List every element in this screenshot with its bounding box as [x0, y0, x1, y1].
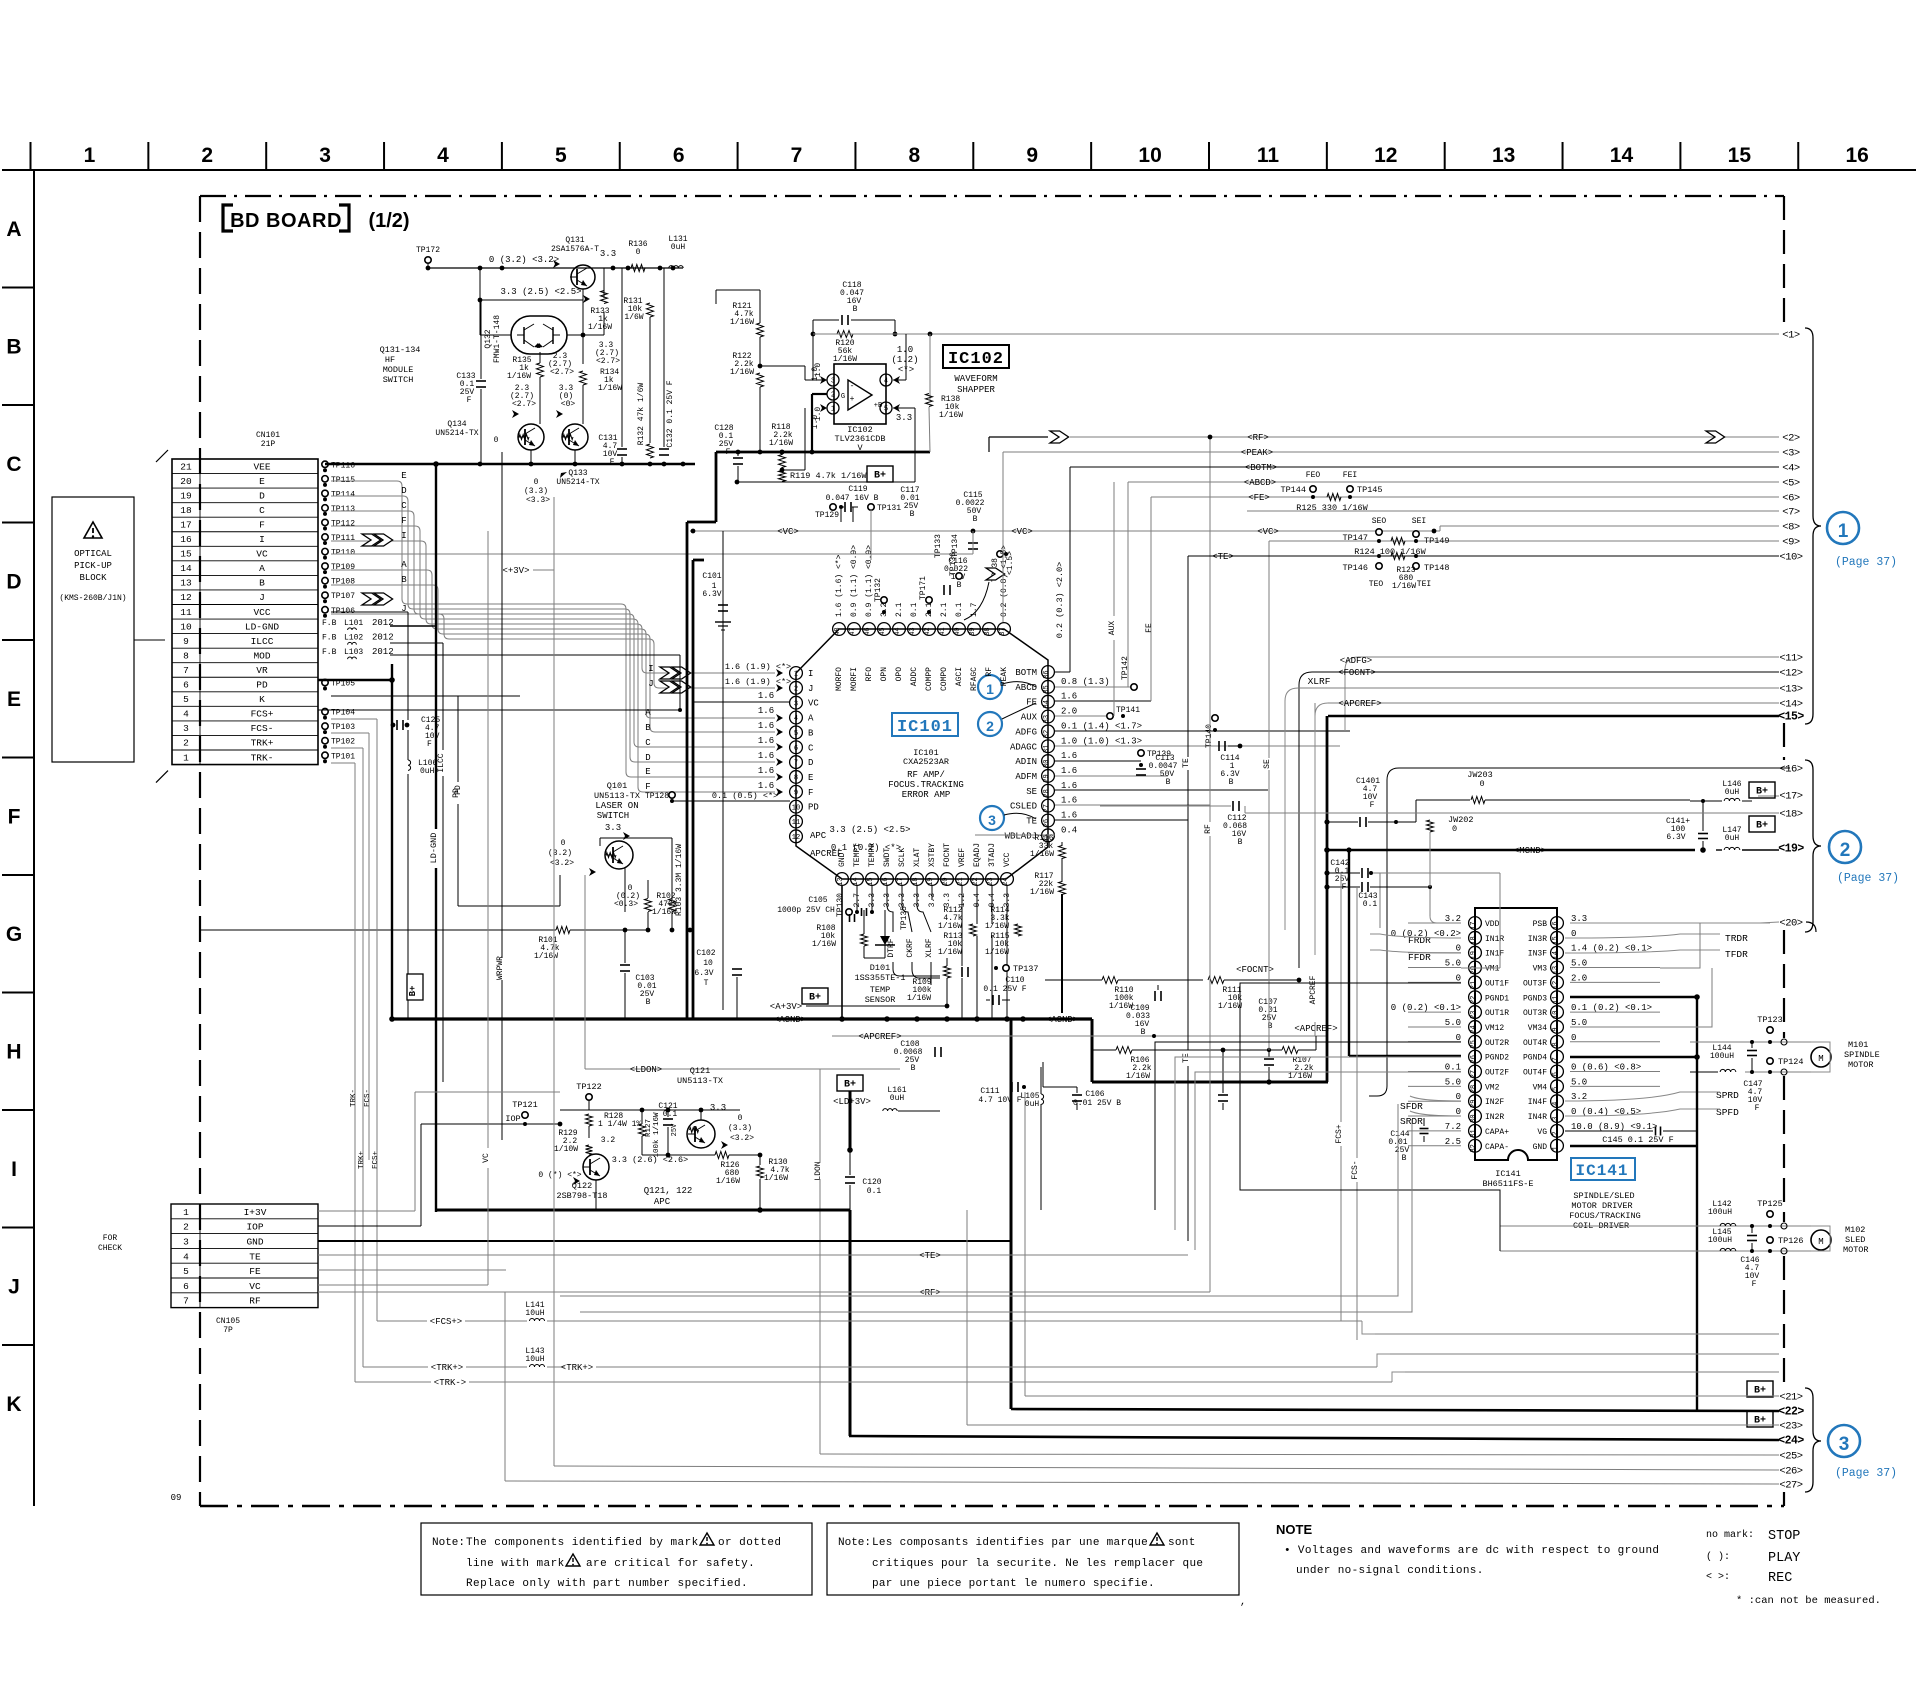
capacitor C146 4.7 10V F — [1740, 1224, 1759, 1289]
svg-text:MORFI: MORFI — [850, 667, 859, 691]
svg-text:<3.3>: <3.3> — [526, 496, 550, 505]
svg-text:B: B — [1238, 838, 1243, 847]
svg-text:TEMPI: TEMPI — [853, 843, 862, 867]
svg-text:4: 4 — [437, 144, 449, 167]
svg-text:1: 1 — [84, 144, 96, 167]
test point TP132 TP171 on top pins — [874, 576, 932, 614]
svg-text:OUT4R: OUT4R — [1523, 1039, 1547, 1048]
svg-text:15: 15 — [180, 549, 192, 560]
svg-text:10: 10 — [792, 804, 800, 812]
svg-text:B+: B+ — [844, 1080, 856, 1091]
svg-text:F: F — [808, 788, 813, 798]
wire net ABCD rail to 5 — [1128, 478, 1779, 687]
IC102 pin values — [814, 345, 919, 421]
border ruler top ticks and numbers — [31, 142, 1869, 170]
svg-text:23: 23 — [1470, 1010, 1478, 1018]
svg-text:TP171: TP171 — [919, 576, 928, 600]
svg-text:HF: HF — [385, 355, 395, 365]
svg-text:33: 33 — [1043, 715, 1051, 723]
svg-text:Les composants identifies par: Les composants identifies par une marque — [872, 1537, 1148, 1549]
wire rect loop OUT paths left of IC141 — [560, 923, 1712, 1312]
svg-text:3.3: 3.3 — [710, 1103, 726, 1113]
svg-text:1.6: 1.6 — [758, 781, 774, 791]
svg-text:<9>: <9> — [1782, 537, 1800, 549]
inductor L146 0uH — [1690, 780, 1779, 801]
blue circled 1 page ref — [1827, 512, 1897, 569]
resistor R120 56k 1/16W feedback — [811, 320, 898, 380]
svg-text:VR: VR — [256, 665, 268, 676]
svg-text:B: B — [645, 723, 651, 733]
svg-text:17: 17 — [1470, 921, 1478, 929]
svg-text:37: 37 — [999, 627, 1007, 635]
svg-text:IC102: IC102 — [948, 350, 1004, 369]
double arrow marks on I J wires — [660, 667, 691, 693]
svg-text:E: E — [645, 767, 650, 777]
vertical nets TRK FCS from CN101 — [350, 719, 380, 1382]
svg-text:B: B — [646, 998, 651, 1007]
svg-text:B: B — [808, 728, 814, 738]
svg-text:TP148: TP148 — [1424, 563, 1450, 573]
thick B+ horizontal y1210 — [435, 1210, 850, 1436]
B+ box before 17 — [1749, 782, 1775, 798]
svg-text:40: 40 — [954, 627, 962, 635]
svg-text:(Page 37): (Page 37) — [1835, 556, 1897, 569]
svg-text:DTRF: DTRF — [887, 938, 896, 957]
svg-text:-: - — [850, 382, 855, 391]
wire IN3R IN3F to TRDR TFDR — [1565, 934, 1720, 953]
svg-text:Q131: Q131 — [565, 236, 584, 245]
svg-text:CN105: CN105 — [216, 1317, 240, 1326]
svg-text:1/16W: 1/16W — [1392, 582, 1416, 591]
thick left bus vertical x1327 — [1324, 716, 1330, 1082]
svg-text:<17>: <17> — [1779, 791, 1802, 803]
resistor R103 3.3M 1/16W — [669, 844, 685, 933]
svg-text:REC: REC — [1768, 1571, 1792, 1586]
arrow mark above pin 38 — [964, 568, 1005, 620]
Q101 collector wires — [600, 838, 672, 912]
svg-text:,: , — [1240, 1597, 1246, 1608]
svg-text:IC141: IC141 — [1575, 1162, 1628, 1180]
svg-text:1/16W: 1/16W — [939, 411, 963, 420]
wire net 1 rail — [1210, 333, 1779, 335]
svg-text:2: 2 — [183, 738, 189, 749]
net A+3V arrow — [770, 1002, 950, 1012]
svg-text:1SS355TE-1: 1SS355TE-1 — [854, 973, 905, 983]
svg-text:7P: 7P — [223, 1326, 233, 1335]
optical pick-up block — [52, 497, 165, 762]
svg-text:B: B — [957, 581, 962, 590]
svg-text:sont: sont — [1168, 1537, 1196, 1549]
svg-text:J: J — [259, 592, 265, 603]
resistor R118 2.2k 1/16W — [769, 423, 793, 470]
svg-text:OUT1R: OUT1R — [1485, 1009, 1509, 1018]
svg-text:16: 16 — [1552, 921, 1560, 929]
svg-text:35: 35 — [1043, 685, 1051, 693]
svg-text:2.1: 2.1 — [925, 602, 934, 617]
inductor L145 100uH — [1708, 1228, 1736, 1251]
svg-text:0: 0 — [738, 1114, 743, 1123]
svg-text:VC: VC — [482, 1153, 491, 1163]
schematic frame dashed border — [200, 196, 1784, 1506]
label IC102 WAVEFORM SHAPPER — [943, 345, 1009, 395]
inductor L142 100uH — [1708, 1200, 1736, 1226]
svg-text:XLAT: XLAT — [913, 848, 922, 867]
svg-text:22: 22 — [1470, 996, 1478, 1004]
transistor Q134 UN5214-TX — [435, 384, 544, 450]
svg-text:0.1: 0.1 — [910, 602, 919, 617]
svg-text:I: I — [648, 664, 653, 674]
connector CN105 FOR CHECK — [98, 1204, 318, 1335]
svg-text:1/16W: 1/16W — [730, 318, 754, 327]
wires IC141 left pin stubs — [1408, 923, 1461, 1146]
svg-text:APC: APC — [810, 831, 827, 841]
svg-text:COMPO: COMPO — [940, 667, 949, 691]
svg-text:F.B: F.B — [322, 648, 337, 657]
svg-text:0uH: 0uH — [420, 767, 435, 776]
svg-text:B: B — [401, 575, 407, 585]
svg-text:1/16W: 1/16W — [507, 372, 531, 381]
svg-text:0: 0 — [494, 436, 499, 445]
svg-text:D101: D101 — [870, 963, 890, 973]
svg-text:21: 21 — [1470, 981, 1478, 989]
svg-text:C132 0.1 25V F: C132 0.1 25V F — [666, 380, 675, 447]
svg-text:FOCUS/TRACKING: FOCUS/TRACKING — [1569, 1211, 1640, 1221]
blue circled 3 page ref — [1828, 1425, 1897, 1480]
svg-text:IN2F: IN2F — [1485, 1098, 1504, 1107]
svg-text:B: B — [1166, 778, 1171, 787]
svg-text:TRK-: TRK- — [350, 1089, 358, 1107]
net LDON vertical right — [814, 1069, 823, 1454]
svg-text:2SB798-T18: 2SB798-T18 — [556, 1191, 607, 1201]
wire sled motor lines — [1500, 1223, 1830, 1254]
svg-text:100uH: 100uH — [1708, 1208, 1732, 1217]
net VC vertical bottom — [482, 531, 491, 1285]
resistor R107 2.2k 1/16W — [1282, 1024, 1338, 1081]
label IC101 blue box — [892, 713, 958, 737]
svg-text:A: A — [6, 218, 21, 241]
resistor R119 4.7k 1/16W — [735, 408, 915, 484]
svg-text:3.2: 3.2 — [880, 602, 889, 617]
svg-text:0.9 (1.1) <0.9>: 0.9 (1.1) <0.9> — [865, 545, 874, 617]
svg-text:1.6 (1.9) <*>: 1.6 (1.9) <*> — [725, 677, 791, 687]
svg-text:VEE: VEE — [253, 461, 270, 472]
svg-text:16: 16 — [882, 877, 890, 885]
svg-text:B: B — [259, 578, 265, 589]
svg-text:1/16W: 1/16W — [1288, 1072, 1312, 1081]
svg-text:0 (3.2) <3.2>: 0 (3.2) <3.2> — [489, 255, 559, 265]
svg-text:C119: C119 — [848, 485, 867, 494]
svg-text:<FOCNT>: <FOCNT> — [1338, 668, 1376, 678]
svg-text:25: 25 — [1470, 1040, 1478, 1048]
resistor R106 2.2k 1/16W — [1092, 1047, 1228, 1111]
wire loop rounded rect outer — [1369, 768, 1790, 1096]
svg-text:EQADJ: EQADJ — [973, 843, 982, 867]
thick VR rail from CN101 — [318, 677, 395, 683]
svg-text:1.6: 1.6 — [758, 751, 774, 761]
svg-text:39: 39 — [969, 627, 977, 635]
inductor L131 — [668, 235, 687, 268]
svg-text:1/10W: 1/10W — [554, 1145, 578, 1154]
net TE arrow bottom — [919, 1251, 941, 1261]
svg-text:1/16W: 1/16W — [1218, 1002, 1242, 1011]
svg-text:1.6: 1.6 — [758, 691, 774, 701]
svg-text:32: 32 — [1470, 1144, 1478, 1152]
svg-text:CAPA+: CAPA+ — [1485, 1128, 1509, 1137]
svg-text:20: 20 — [1470, 966, 1478, 974]
svg-text:2: 2 — [831, 392, 835, 400]
svg-text:0uH: 0uH — [1725, 788, 1740, 797]
svg-text:1/16W: 1/16W — [938, 948, 962, 957]
svg-text:WAVEFORM: WAVEFORM — [954, 374, 997, 384]
IC102 pin 4 — [880, 374, 892, 386]
capacitor C116 0.022 16V B with TP133 TP134 TP138 — [934, 534, 1015, 590]
svg-text:3: 3 — [794, 700, 798, 708]
test point TP126 — [1767, 1236, 1804, 1253]
svg-text:TP128: TP128 — [645, 792, 669, 801]
svg-text:PSB: PSB — [1533, 920, 1548, 929]
svg-text:1: 1 — [1838, 521, 1849, 542]
IC141 right pins 16-1 — [1523, 914, 1657, 1152]
svg-text:10: 10 — [703, 959, 713, 968]
svg-text:UN5214-TX: UN5214-TX — [435, 429, 478, 438]
wire FRDR FFDR hooks — [1370, 934, 1461, 953]
wire net VC rail to 8 — [1440, 526, 1779, 531]
svg-text:APCREF: APCREF — [1309, 975, 1318, 1004]
svg-text:BD BOARD: BD BOARD — [230, 210, 342, 232]
svg-text:<LD+3V>: <LD+3V> — [833, 1097, 871, 1107]
note box english safety — [421, 1523, 812, 1595]
capacitor C107 0.01 25V B — [1223, 998, 1282, 1085]
svg-text:0.1 (1.4) <1.7>: 0.1 (1.4) <1.7> — [1061, 721, 1142, 731]
net WRPWR vertical — [496, 452, 505, 1140]
svg-text:25V: 25V — [671, 1123, 679, 1136]
B+ box and thick rail right of APC — [837, 1075, 1011, 1153]
svg-text:6.3V: 6.3V — [702, 590, 721, 599]
svg-text:21P: 21P — [261, 440, 276, 449]
thick VEE rail from CN101 — [389, 664, 395, 1022]
svg-text:1/16W: 1/16W — [1126, 1072, 1150, 1081]
svg-text:44: 44 — [894, 627, 902, 635]
svg-text:TP115: TP115 — [331, 476, 355, 485]
label IC141 blue box — [1571, 1158, 1635, 1180]
svg-text:OUT2R: OUT2R — [1485, 1039, 1509, 1048]
IC101 right pins 36-25 — [1005, 666, 1142, 843]
svg-text:3.3: 3.3 — [605, 823, 621, 833]
svg-text:RF: RF — [1204, 824, 1213, 834]
svg-text:TP124: TP124 — [1778, 1057, 1804, 1067]
svg-text:1/16W: 1/16W — [598, 384, 622, 393]
svg-text:C101: C101 — [702, 572, 721, 581]
svg-text:19: 19 — [1470, 951, 1478, 959]
svg-text:F: F — [259, 519, 265, 530]
svg-text:MOTOR: MOTOR — [1848, 1060, 1874, 1070]
connector CN101 — [156, 431, 318, 783]
IC101 top pin value labels vertical — [835, 545, 1009, 617]
svg-text:TP149: TP149 — [1424, 536, 1450, 546]
test point TP125 — [1757, 1199, 1783, 1228]
svg-text:M101: M101 — [1848, 1040, 1868, 1050]
svg-text:J: J — [648, 679, 653, 689]
svg-text:R119 4.7k 1/16W: R119 4.7k 1/16W — [790, 471, 867, 481]
vertical nets TE SE RF APCREF FCS labels — [1182, 437, 1318, 1292]
svg-text:1.6: 1.6 — [758, 766, 774, 776]
svg-text:0: 0 — [1452, 824, 1457, 834]
capacitor C103 0.01 25V B — [620, 930, 657, 1019]
svg-text:2: 2 — [183, 1222, 189, 1233]
svg-text:F: F — [1752, 1280, 1757, 1289]
svg-text:19: 19 — [180, 490, 192, 501]
svg-text:23: 23 — [987, 877, 995, 885]
svg-text:OPN: OPN — [880, 667, 889, 682]
svg-text:AUX: AUX — [1021, 713, 1038, 723]
svg-text:0.01 25V B: 0.01 25V B — [1073, 1099, 1121, 1108]
svg-text:1/16W: 1/16W — [1109, 1002, 1133, 1011]
svg-text:MOTOR DRIVER: MOTOR DRIVER — [1571, 1201, 1632, 1211]
net APCREF arrow y1036 — [832, 1032, 1327, 1042]
svg-text:2.0: 2.0 — [1061, 707, 1077, 717]
svg-text:ADFG: ADFG — [1015, 727, 1037, 737]
svg-text:2.1: 2.1 — [940, 602, 949, 617]
wire letter stub bundle CN101 to IC101 — [331, 471, 783, 796]
svg-text:3TADJ: 3TADJ — [988, 843, 997, 867]
test point TP121 IOP — [421, 1100, 562, 1126]
wire CN101 pin rows to vertical nets — [331, 719, 377, 763]
svg-text:FCS-: FCS- — [364, 1089, 372, 1107]
net FOCNT label mid — [1236, 965, 1274, 975]
svg-text:5: 5 — [183, 694, 189, 705]
capacitor C144 0.01 25V B — [1388, 1118, 1428, 1163]
svg-text:WRPWR: WRPWR — [496, 956, 505, 980]
label 0 (3.3) <3.3> at Q133 base — [524, 472, 567, 520]
svg-text:<7>: <7> — [1782, 507, 1800, 519]
svg-text:B: B — [1268, 1022, 1273, 1031]
svg-text:ILCC: ILCC — [437, 753, 446, 772]
inductor L106 0uH — [408, 759, 437, 776]
svg-text:WBLADJ: WBLADJ — [1005, 831, 1037, 841]
resistor R133 1k — [588, 291, 612, 333]
svg-text:IC101: IC101 — [897, 718, 953, 737]
svg-text:27: 27 — [1043, 804, 1051, 812]
svg-text:B: B — [973, 515, 978, 524]
svg-text:28: 28 — [1470, 1085, 1478, 1093]
svg-text:R127: R127 — [645, 1119, 653, 1137]
wire net PEAK rail to 3 — [1003, 448, 1779, 622]
svg-text:3: 3 — [988, 812, 996, 828]
svg-text:C: C — [6, 453, 21, 476]
vertical labels DTRF CKRF XLRF under IC101 — [887, 886, 1285, 985]
svg-text:9: 9 — [1026, 144, 1038, 167]
svg-text:E: E — [401, 471, 406, 481]
svg-text:PGND1: PGND1 — [1485, 994, 1509, 1003]
svg-text:OPTICAL: OPTICAL — [74, 549, 112, 559]
wire SFDR SRDR hooks — [1410, 1096, 1461, 1116]
svg-text:no mark:: no mark: — [1706, 1529, 1754, 1541]
svg-text:VCC: VCC — [1003, 852, 1012, 867]
svg-text:ILCC: ILCC — [251, 636, 274, 647]
svg-text:I: I — [11, 1158, 17, 1181]
svg-text:6: 6 — [794, 745, 798, 753]
wire net FOCNT to 12 — [1299, 668, 1779, 968]
transistor Q133 UN5214-TX — [556, 384, 600, 487]
svg-text:VC: VC — [256, 549, 268, 560]
svg-text:TP112: TP112 — [331, 519, 355, 528]
svg-text:TRK+: TRK+ — [251, 738, 274, 749]
svg-text:<LDON>: <LDON> — [630, 1065, 662, 1075]
CN105 row wires — [318, 1092, 1188, 1292]
svg-text:1.6: 1.6 — [1061, 781, 1077, 791]
svg-text:14: 14 — [1552, 951, 1560, 959]
svg-text:<3.2>: <3.2> — [730, 1134, 754, 1143]
brace group 1 — [1805, 328, 1821, 724]
svg-text:TP141: TP141 — [1116, 706, 1140, 715]
wire PSB 3.3 to 20 — [1570, 922, 1770, 924]
svg-text:FCS-: FCS- — [251, 723, 274, 734]
svg-text:<13>: <13> — [1779, 684, 1802, 696]
svg-text:TP101: TP101 — [331, 752, 355, 761]
capacitor C101 6.3V — [702, 572, 731, 630]
svg-text:CKRF: CKRF — [906, 938, 915, 957]
resistor R109 100k 1/16W — [907, 958, 968, 1006]
svg-text:0: 0 — [534, 478, 539, 487]
svg-text:4: 4 — [183, 709, 189, 720]
svg-text:R103 3.3M 1/16W: R103 3.3M 1/16W — [675, 844, 684, 916]
svg-text:10: 10 — [1138, 144, 1161, 167]
svg-text:VM34: VM34 — [1528, 1024, 1547, 1033]
resistor R111 10k 1/16W — [1208, 977, 1301, 1012]
capacitor C132 0.1 25V F vertical — [659, 268, 675, 455]
svg-text:0: 0 — [561, 839, 566, 848]
svg-text:<TE>: <TE> — [1212, 552, 1234, 562]
capacitor C142 0.1 25V F — [1324, 859, 1500, 892]
svg-text:B+: B+ — [809, 993, 821, 1004]
svg-text:10uH: 10uH — [525, 1309, 544, 1318]
wire IC102 pin2 net — [812, 394, 827, 452]
svg-text:42: 42 — [924, 627, 932, 635]
svg-text:1 1/4W 1%: 1 1/4W 1% — [598, 1120, 641, 1129]
svg-text:0uH: 0uH — [1025, 1100, 1040, 1109]
svg-text:VDD: VDD — [1485, 920, 1500, 929]
svg-text:TE: TE — [249, 1251, 261, 1262]
svg-text:5: 5 — [794, 730, 798, 738]
svg-text:B: B — [910, 510, 915, 519]
svg-text:0: 0 — [1571, 929, 1576, 939]
svg-text:VC: VC — [808, 699, 819, 709]
svg-text:3.3 (2.6) <2.6>: 3.3 (2.6) <2.6> — [612, 1155, 689, 1165]
svg-text:<APCREF>: <APCREF> — [1338, 699, 1381, 709]
capacitor C105 1000p 25V CH — [777, 896, 854, 922]
svg-text:1/16W: 1/16W — [730, 368, 754, 377]
svg-text:APC: APC — [654, 1197, 671, 1207]
svg-text:VM2: VM2 — [1485, 1083, 1500, 1092]
svg-text:OUT2F: OUT2F — [1485, 1069, 1509, 1078]
svg-text:1/16W: 1/16W — [938, 922, 962, 931]
test point TP123 — [1757, 1015, 1783, 1044]
wires Q131 Q133 Q134 interconnect — [531, 268, 604, 464]
svg-text:TP123: TP123 — [1757, 1015, 1783, 1025]
svg-text:1/16W: 1/16W — [769, 439, 793, 448]
net RF arrow bottom — [505, 1288, 1210, 1481]
svg-text:TP135: TP135 — [900, 906, 909, 930]
net FCS+ line with L141 — [377, 1301, 1362, 1327]
svg-text:<VC>: <VC> — [1257, 527, 1279, 537]
svg-text:MORFO: MORFO — [835, 667, 844, 691]
svg-text:FEO: FEO — [1306, 471, 1321, 480]
svg-text:<14>: <14> — [1779, 699, 1802, 711]
svg-text:I: I — [808, 669, 813, 679]
svg-text:I+3V: I+3V — [244, 1207, 267, 1218]
svg-text:17: 17 — [180, 519, 191, 530]
svg-text:29: 29 — [1043, 774, 1051, 782]
